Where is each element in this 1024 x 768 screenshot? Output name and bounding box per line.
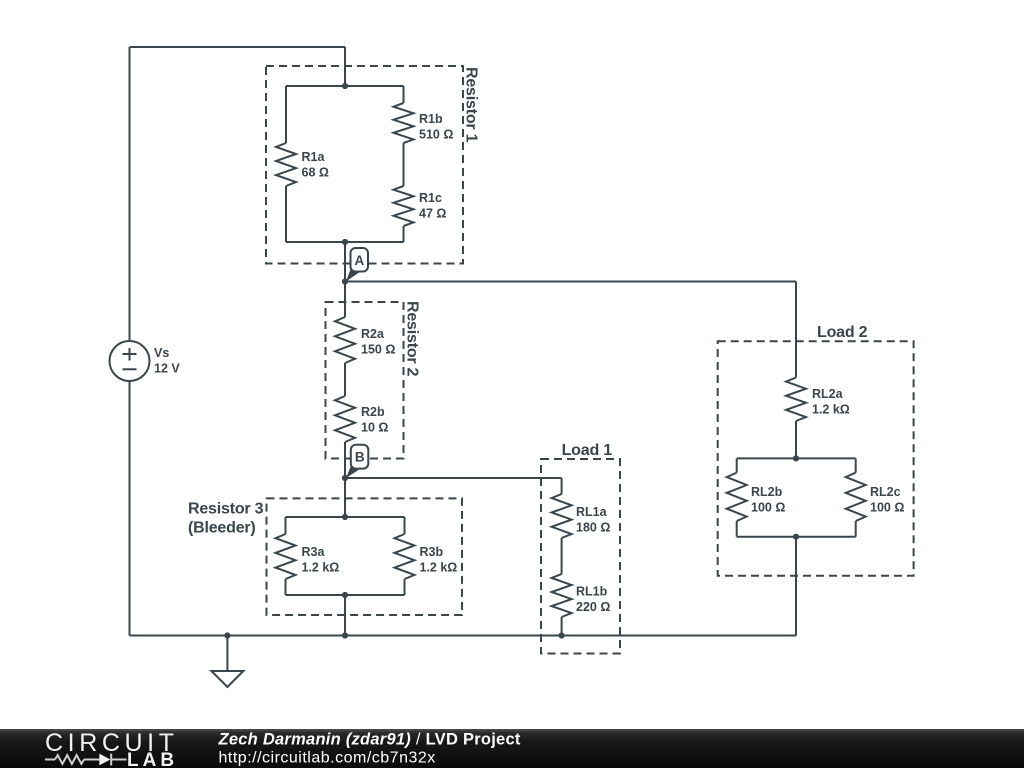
svg-text:Load 2: Load 2 bbox=[817, 324, 868, 341]
svg-text:Resistor 1: Resistor 1 bbox=[463, 67, 480, 143]
svg-text:RL2c: RL2c bbox=[870, 485, 901, 499]
svg-text:RL2b: RL2b bbox=[751, 485, 783, 499]
svg-text:510 Ω: 510 Ω bbox=[419, 128, 453, 142]
svg-text:47 Ω: 47 Ω bbox=[419, 207, 446, 221]
svg-text:RL2a: RL2a bbox=[812, 387, 844, 401]
svg-text:100 Ω: 100 Ω bbox=[870, 501, 904, 515]
svg-text:RL1a: RL1a bbox=[576, 505, 608, 519]
svg-text:Vs: Vs bbox=[154, 346, 169, 360]
svg-text:LAB: LAB bbox=[127, 750, 178, 768]
svg-text:R2a: R2a bbox=[361, 327, 385, 341]
svg-text:http://circuitlab.com/cb7n32x: http://circuitlab.com/cb7n32x bbox=[219, 750, 436, 767]
svg-text:R1a: R1a bbox=[302, 150, 326, 164]
svg-text:R3b: R3b bbox=[420, 545, 444, 559]
svg-text:R1c: R1c bbox=[419, 191, 442, 205]
svg-text:68 Ω: 68 Ω bbox=[302, 166, 329, 180]
svg-text:R3a: R3a bbox=[302, 545, 326, 559]
svg-text:Zech Darmanin (zdar91) / LVD P: Zech Darmanin (zdar91) / LVD Project bbox=[218, 731, 521, 749]
svg-text:220 Ω: 220 Ω bbox=[576, 600, 610, 614]
svg-text:Load 1: Load 1 bbox=[562, 442, 613, 459]
svg-text:1.2 kΩ: 1.2 kΩ bbox=[812, 403, 850, 417]
svg-text:B: B bbox=[355, 450, 365, 465]
svg-text:R1b: R1b bbox=[419, 112, 443, 126]
svg-text:A: A bbox=[355, 253, 365, 268]
svg-text:1.2 kΩ: 1.2 kΩ bbox=[302, 561, 340, 575]
svg-text:R2b: R2b bbox=[361, 405, 385, 419]
svg-text:100 Ω: 100 Ω bbox=[751, 501, 785, 515]
svg-text:1.2 kΩ: 1.2 kΩ bbox=[420, 561, 458, 575]
svg-text:180 Ω: 180 Ω bbox=[576, 521, 610, 535]
svg-text:(Bleeder): (Bleeder) bbox=[188, 520, 256, 537]
svg-text:Resistor 3: Resistor 3 bbox=[188, 501, 264, 518]
svg-text:10 Ω: 10 Ω bbox=[361, 421, 388, 435]
svg-text:Resistor 2: Resistor 2 bbox=[404, 301, 421, 377]
svg-text:12 V: 12 V bbox=[154, 362, 180, 376]
svg-text:RL1b: RL1b bbox=[576, 585, 608, 599]
svg-text:150 Ω: 150 Ω bbox=[361, 343, 395, 357]
